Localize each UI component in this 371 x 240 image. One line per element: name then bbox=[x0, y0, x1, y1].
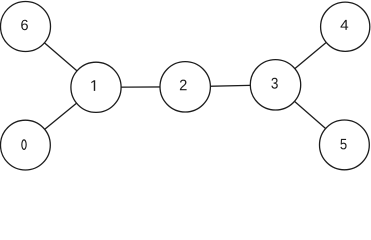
node 1 bbox=[71, 62, 121, 112]
node 4 bbox=[321, 2, 370, 51]
wire edge 3-4 bbox=[276, 27, 346, 85]
node 2 bbox=[160, 62, 210, 112]
node 6 bbox=[1, 2, 51, 52]
wire edge 3-5 bbox=[276, 85, 345, 145]
wire edge 1-2 bbox=[96, 86, 185, 89]
node 3 bbox=[250, 60, 300, 110]
wire edge 2-3 bbox=[185, 85, 275, 87]
wire edge 6-1 bbox=[26, 27, 97, 88]
wire edge 0-1 bbox=[25, 87, 96, 145]
node 0 bbox=[1, 120, 51, 170]
node 5 bbox=[320, 120, 370, 170]
